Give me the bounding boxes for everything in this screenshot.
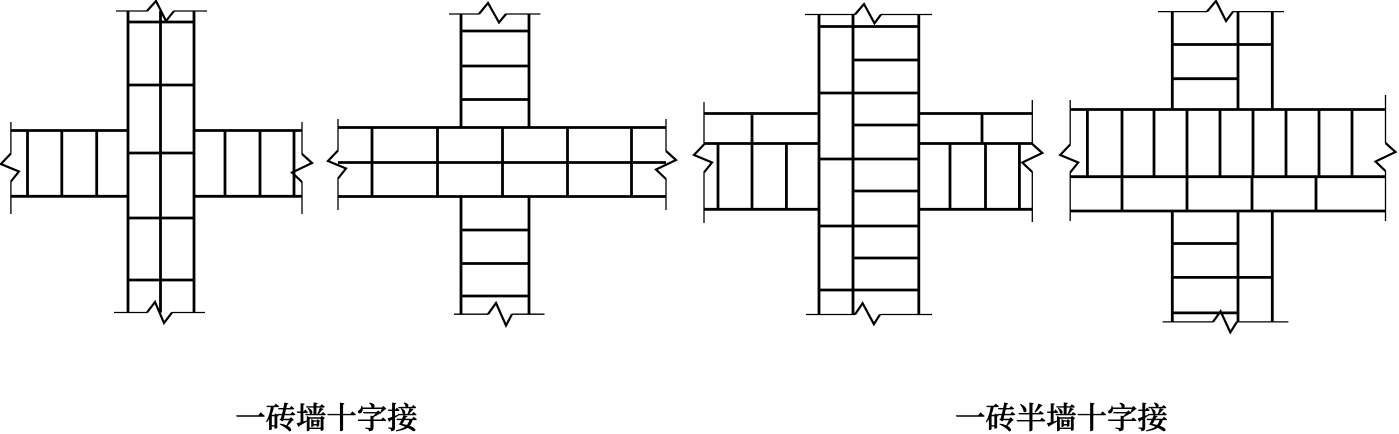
- cross 3: full bed joint y=159: [819, 158, 919, 161]
- cross 3: top break mark: [855, 4, 881, 23]
- cross 2: top border left segment (thin): [449, 13, 479, 15]
- cross 1: vertical wall centre joint: [159, 11, 162, 313]
- cross 3: horizontal wall left-arm top edge: [704, 112, 819, 115]
- cross 2: horizontal wall middle joint: [338, 161, 666, 164]
- cross 4: top border left segment (thin): [1158, 11, 1207, 13]
- cross 1: vertical wall bottom border right segment (thin): [172, 312, 205, 314]
- cross 3: right-arm bottom-row head joint x=950: [949, 144, 952, 210]
- cross 4: top-arm left-column bed joint y=44.5: [1172, 43, 1238, 46]
- cross 4: horizontal wall top edge: [1070, 108, 1385, 111]
- cross 3: right-column bed joint y=258: [853, 257, 919, 260]
- cross 1: right-arm head joint x=294: [293, 131, 296, 197]
- cross 3: horizontal wall left-arm middle joint: [704, 142, 819, 145]
- cross 3: right-arm bottom-row head joint x=985.5: [984, 144, 987, 210]
- cross 3: full bed joint y=93: [819, 92, 919, 95]
- cross 4: top-row head joint x=1319: [1318, 110, 1321, 177]
- cross 2: bottom border left segment (thin): [454, 313, 488, 315]
- cross 4: top-row head joint x=1154: [1153, 110, 1156, 177]
- cross 1: left-arm head joint x=61.8: [60, 131, 63, 197]
- cross 1: bed joint y=218: [128, 217, 194, 220]
- cross 3: full bed joint y=26.5: [819, 25, 919, 28]
- cross 2: right break mark: [656, 151, 676, 179]
- cross 2: head joint x=372: [371, 128, 374, 197]
- cross 3: horizontal wall right-arm bottom edge: [919, 208, 1033, 211]
- cross 1: vertical wall right edge: [193, 11, 196, 313]
- cross 4: vertical wall top-arm left edge: [1171, 12, 1174, 110]
- cross 2: top border right segment (thin): [506, 13, 540, 15]
- cross 2: left cut line upper segment (thin): [337, 119, 339, 151]
- cross 2: right cut line lower segment (thin): [665, 179, 667, 210]
- cross 3: vertical wall top border right segment (thin): [881, 14, 932, 16]
- cross 1: horizontal wall right-arm bottom edge: [194, 195, 302, 198]
- cross 1: horizontal wall left-arm top edge: [11, 129, 128, 132]
- cross 2: head joint x=631.5: [630, 128, 633, 197]
- cross 4: top-arm left-column bed joint y=78.7: [1172, 77, 1238, 80]
- cross 1: left cut line lower segment (thin): [10, 182, 12, 215]
- cross 3: right-arm top-row head joint: [981, 114, 984, 144]
- cross 4: bottom-arm left-column bed joint y=277.4: [1172, 276, 1238, 279]
- cross 1: right-arm head joint x=225: [224, 131, 227, 197]
- cross 1: bed joint y=85: [128, 84, 194, 87]
- cross 4: right break mark: [1376, 143, 1396, 171]
- cross 2: top-arm bed joint y=99.5: [461, 98, 529, 101]
- cross 3: left-arm bottom-row head joint x=786.4: [785, 144, 788, 210]
- cross 4: top-row head joint x=1122: [1121, 110, 1124, 177]
- cross 4: top-row head joint x=1187: [1186, 110, 1189, 177]
- cross 3: vertical wall inner joint: [852, 15, 855, 315]
- cross 2: vertical wall bottom-arm right edge: [528, 197, 531, 315]
- cross 1: bottom break mark: [147, 302, 172, 323]
- cross 3: right break mark: [1022, 144, 1042, 172]
- cross 3: bottom break mark: [855, 303, 880, 324]
- cross 4: top-arm right-column bed joint: [1238, 43, 1272, 46]
- cross 4: left cut line upper segment (thin): [1069, 100, 1071, 145]
- cross 4: top-row head joint x=1087.4: [1086, 110, 1089, 177]
- cross 4: right cut line lower segment (thin): [1385, 171, 1387, 221]
- cross 4: right cut line upper segment (thin): [1385, 95, 1387, 143]
- caption: 一砖半墙十字接 (one-and-a-half-brick wall cross joint): [956, 403, 1166, 431]
- cross 3: vertical wall bottom border right segment (thin): [880, 314, 932, 316]
- cross 1: horizontal wall left-arm bottom edge: [11, 195, 128, 198]
- cross 1: vertical wall left edge: [127, 11, 130, 313]
- cross 4: left cut line lower segment (thin): [1069, 173, 1071, 222]
- cross 2: vertical wall top-arm left edge: [460, 14, 463, 128]
- cross 1: left-arm head joint x=96.7: [95, 131, 98, 197]
- cross 1: vertical wall top border right segment (thin): [174, 10, 207, 12]
- cross 3: horizontal wall right-arm top edge: [919, 112, 1033, 115]
- cross 3: left cut line lower segment (thin): [703, 173, 705, 224]
- cross 3: vertical wall bottom border left segment (thin): [806, 314, 855, 316]
- cross 4: bottom-row head joint x=1122: [1121, 177, 1124, 211]
- cross 3: right-arm bottom-row head joint x=1019.4: [1018, 144, 1021, 210]
- cross 2: top break mark: [479, 3, 506, 23]
- cross 4: vertical wall bottom-arm left edge: [1171, 211, 1174, 322]
- cross 4: horizontal wall bottom edge: [1070, 210, 1385, 213]
- cross 2: right cut line upper segment (thin): [665, 119, 667, 151]
- cross 3: right-column bed joint y=60: [853, 59, 919, 62]
- cross 4: bottom border right segment (thin): [1237, 321, 1288, 323]
- cross 2: head joint x=437.5: [436, 128, 439, 197]
- cross 3: left-arm top-row head joint: [751, 114, 754, 144]
- cross 1: bed joint y=22: [128, 21, 194, 24]
- cross 2: head joint x=502.5: [501, 128, 504, 197]
- cross 3: vertical wall left edge: [818, 15, 821, 315]
- cross 2: horizontal wall top edge: [338, 126, 666, 129]
- cross 1: left-arm head joint x=27.5: [26, 131, 29, 197]
- cross 2: left break mark: [328, 151, 346, 179]
- cross 4: top-row head joint x=1253: [1252, 110, 1255, 177]
- cross 3: left break mark: [694, 145, 712, 173]
- cross 1: vertical wall bottom border left segment (thin): [114, 312, 147, 314]
- cross 1: left break mark: [1, 154, 19, 182]
- cross 2: bottom border right segment (thin): [512, 313, 545, 315]
- cross 1: top break mark: [147, 1, 174, 21]
- cross 4: top-row head joint x=1220: [1219, 110, 1222, 177]
- cross 4: vertical wall bottom-arm inner joint: [1237, 211, 1240, 322]
- cross 4: top border right segment (thin): [1233, 11, 1284, 13]
- cross 3: right cut line lower segment (thin): [1031, 172, 1033, 222]
- cross 4: top-row head joint x=1352: [1351, 110, 1354, 177]
- cross 2: vertical wall top-arm right edge: [528, 14, 531, 128]
- cross 4: top-row head joint x=1286: [1285, 110, 1288, 177]
- cross 2: bottom-arm bed joint y=296: [461, 295, 529, 298]
- cross 3: left-arm bottom-row head joint x=752: [751, 144, 754, 210]
- cross 4: bottom break mark: [1213, 311, 1237, 332]
- cross 3: left cut line upper segment (thin): [703, 102, 705, 145]
- cross 3: right cut line upper segment (thin): [1031, 100, 1033, 144]
- cross 4: bottom-arm right-column bed joint: [1238, 276, 1272, 279]
- cross 4: left break mark: [1060, 145, 1078, 173]
- cross 2: top-arm bed joint y=31: [461, 30, 529, 33]
- cross 1: bed joint y=153: [128, 152, 194, 155]
- cross 1: right cut line lower segment (thin): [301, 182, 303, 214]
- caption: 一砖墙十字接 (one-brick wall cross joint): [237, 403, 417, 431]
- cross 1: horizontal wall right-arm top edge: [194, 129, 302, 132]
- cross 1: right-arm head joint x=260: [259, 131, 262, 197]
- cross 2: bottom break mark: [488, 303, 512, 326]
- cross 4: horizontal wall middle joint: [1070, 175, 1385, 178]
- cross 4: vertical wall top-arm right edge: [1271, 12, 1274, 110]
- cross 4: top break mark: [1207, 1, 1233, 21]
- cross 4: bottom-row head joint x=1316: [1315, 177, 1318, 211]
- cross 4: bottom-arm left-column bed joint y=243.5: [1172, 242, 1238, 245]
- cross 2: bottom-arm bed joint y=230: [461, 229, 529, 232]
- cross 3: left-arm bottom-row head joint x=718: [717, 144, 720, 210]
- cross 3: full bed joint y=226: [819, 225, 919, 228]
- cross 4: bottom-row head joint x=1187: [1186, 177, 1189, 211]
- cross 1: right break mark: [292, 154, 312, 182]
- cross 3: right-column bed joint y=125: [853, 124, 919, 127]
- cross 3: horizontal wall left-arm bottom edge: [704, 208, 819, 211]
- cross 1: right cut line upper segment (thin): [301, 122, 303, 154]
- cross 3: right-column bed joint y=191: [853, 190, 919, 193]
- cross 2: horizontal wall bottom edge: [338, 195, 666, 198]
- cross 4: vertical wall top-arm inner joint: [1237, 12, 1240, 110]
- cross 3: full bed joint y=290: [819, 289, 919, 292]
- cross 2: left cut line lower segment (thin): [337, 179, 339, 211]
- cross 3: vertical wall right edge: [917, 15, 920, 315]
- cross 1: left cut line upper segment (thin): [10, 122, 12, 154]
- cross 3: horizontal wall right-arm middle joint: [919, 142, 1033, 145]
- cross 2: top-arm bed joint y=66: [461, 65, 529, 68]
- cross 1: vertical wall top border left segment (thin): [116, 10, 147, 12]
- cross 4: bottom border left segment (thin): [1163, 321, 1213, 323]
- cross 3: vertical wall top border left segment (thin): [805, 14, 855, 16]
- cross 1: bed joint y=280: [128, 279, 194, 282]
- cross 4: vertical wall bottom-arm right edge: [1271, 211, 1274, 322]
- cross 4: bottom-arm left-column bed joint y=312.9: [1172, 311, 1238, 314]
- cross 2: bottom-arm bed joint y=263.5: [461, 262, 529, 265]
- cross 2: vertical wall bottom-arm left edge: [460, 197, 463, 315]
- cross 4: bottom-row head joint x=1252: [1251, 177, 1254, 211]
- cross 2: head joint x=567.5: [566, 128, 569, 197]
